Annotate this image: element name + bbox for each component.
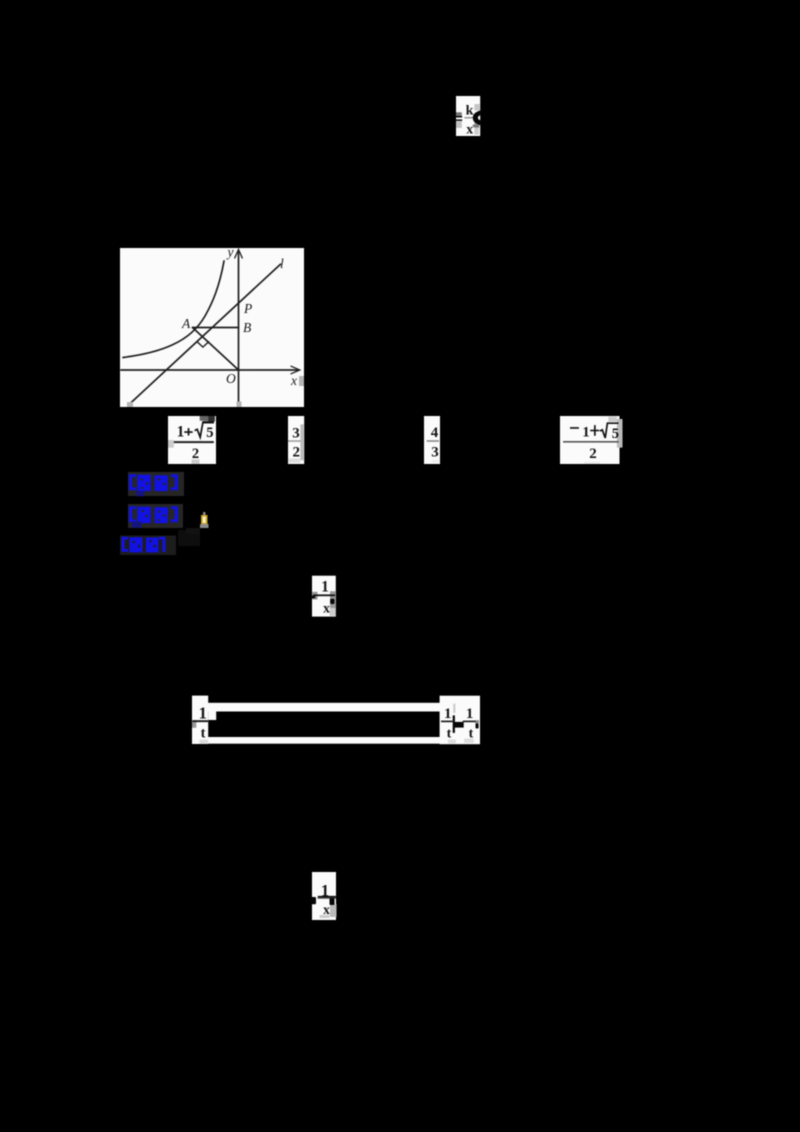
svg-text:t: t (201, 726, 206, 742)
svg-text:5: 5 (612, 426, 619, 442)
svg-text:5: 5 (206, 425, 213, 441)
svg-text:1: 1 (466, 706, 474, 722)
svg-text:t: t (469, 727, 474, 742)
blue label [kao dian] (128, 472, 184, 496)
svg-text:P: P (243, 301, 252, 316)
svg-text:y: y (226, 245, 234, 260)
svg-text:1: 1 (177, 423, 185, 440)
long 1/t ... 1/t=1/t' row (192, 696, 480, 745)
right box contents (453, 704, 455, 713)
fraction 1/x' lower (311, 872, 337, 920)
left 1/t box (192, 696, 208, 744)
x axis (121, 369, 299, 371)
fraction (-1+sqrt5)/2 (560, 416, 623, 464)
svg-text:B: B (243, 320, 251, 335)
blue label [fen xi] (120, 536, 176, 556)
right angle mark (197, 342, 208, 347)
svg-text:4: 4 (431, 425, 439, 441)
svg-text:2: 2 (293, 445, 301, 461)
svg-text:A: A (181, 316, 191, 331)
svg-text:3: 3 (431, 445, 439, 461)
svg-text:3: 3 (292, 426, 300, 442)
graph figure (120, 245, 304, 408)
formula image: y = k/x ( (456, 96, 481, 136)
y axis (238, 251, 240, 405)
svg-text:x: x (290, 373, 297, 388)
segment AO (193, 328, 239, 371)
hyperbola curve (123, 261, 224, 358)
svg-text:t: t (447, 727, 452, 742)
line l (129, 264, 281, 404)
svg-text:l: l (280, 256, 284, 271)
fraction (1+sqrt5)/2 (168, 416, 216, 464)
svg-text:2: 2 (192, 446, 199, 462)
segment AB (193, 327, 239, 329)
svg-text:1: 1 (321, 579, 329, 596)
svg-text:2: 2 (589, 446, 597, 462)
fraction 1/x' upper (311, 576, 336, 617)
svg-text:1: 1 (582, 424, 590, 440)
yellow marker icon (200, 512, 209, 528)
bottom white strip (208, 737, 440, 744)
svg-text:1: 1 (199, 703, 207, 722)
right formula box (440, 696, 480, 745)
fraction 3/2 (288, 416, 304, 464)
svg-text:1: 1 (444, 706, 452, 722)
svg-text:x: x (323, 902, 330, 917)
top white strip (208, 703, 440, 712)
fraction 4/3 (424, 416, 440, 464)
svg-text:k: k (466, 104, 474, 119)
svg-text:x: x (323, 601, 330, 616)
svg-text:O: O (226, 371, 236, 386)
svg-text:x: x (466, 121, 473, 136)
blue label [zhuan ti] (128, 504, 183, 528)
